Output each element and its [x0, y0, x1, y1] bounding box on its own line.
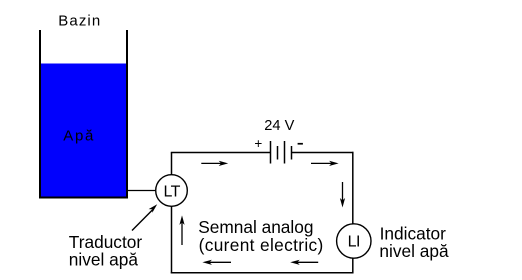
- wire right vertical upper (to LI): [352, 152, 354, 225]
- svg-text:24 V: 24 V: [264, 118, 294, 134]
- svg-text:LI: LI: [348, 234, 360, 251]
- current arrow left-side (up): [179, 215, 184, 245]
- battery B1 24V : plate long left: [270, 141, 272, 164]
- svg-text:Apă: Apă: [63, 127, 95, 144]
- water Apa (blue fill): [40, 64, 127, 198]
- wire tank to LT: [128, 190, 156, 192]
- battery plate long 2: [284, 141, 286, 164]
- svg-text:(curent electric): (curent electric): [199, 235, 324, 255]
- tank right wall: [126, 30, 128, 199]
- current arrow right-side (down): [340, 182, 345, 208]
- wire bottom: [171, 272, 354, 274]
- wire right vertical lower (LI to bottom): [352, 258, 354, 274]
- tank left wall: [39, 30, 41, 199]
- wire top right segment from battery -: [292, 152, 354, 154]
- svg-text:LT: LT: [163, 183, 180, 200]
- svg-text:Bazin: Bazin: [58, 13, 101, 30]
- current arrow top-right (right): [311, 161, 339, 166]
- pointer arrow Traductor to LT: [132, 204, 157, 230]
- wire top-left vertical (LT to top): [171, 153, 173, 175]
- wire left vertical lower (LT to bottom): [171, 206, 173, 273]
- battery plate short 1: [277, 146, 279, 160]
- battery polarity -: [298, 143, 303, 145]
- svg-text:nivel apă: nivel apă: [379, 241, 449, 261]
- current arrow bottom-left (left): [202, 260, 231, 265]
- wire top left segment to battery +: [171, 152, 271, 154]
- battery plate short right: [291, 146, 293, 160]
- svg-text:+: +: [254, 136, 262, 151]
- indicator LI circle: [337, 224, 371, 258]
- transducer LT circle: [156, 175, 188, 207]
- tank bottom wall: [39, 197, 128, 199]
- current arrow top-left (right): [201, 161, 228, 166]
- current arrow bottom-right (left): [290, 260, 318, 265]
- svg-text:nivel apă: nivel apă: [69, 250, 139, 270]
